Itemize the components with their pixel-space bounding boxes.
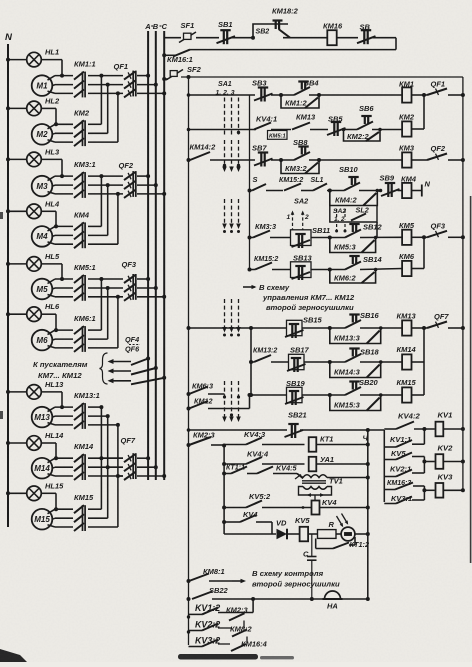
row SB15/KM13 wire [187, 326, 191, 330]
text to control circuit KM7..KM12 [243, 286, 255, 288]
wire SL2 box to row [376, 222, 378, 238]
wire QF2 pole to bus [137, 175, 148, 177]
lamp HL5 [8, 263, 27, 265]
motor М14 [32, 458, 53, 479]
wire QF3 pole to bus [137, 296, 164, 298]
wire KM14 to QF7 row [423, 328, 425, 362]
wire HL3 to motor feed [41, 158, 62, 160]
wire group vertical [107, 85, 109, 134]
wire rail1 return [395, 38, 397, 50]
transformer TV1 [297, 474, 303, 478]
wire rail1 [196, 37, 219, 39]
wire QF1 pole to bus [137, 84, 156, 86]
selector SA1 dashed line [238, 98, 240, 138]
indicator lamp with KT1:2 [341, 527, 355, 541]
lamp HL4 [8, 210, 27, 212]
wire rail2 [181, 76, 463, 78]
wire HL6 to motor feed [41, 313, 56, 315]
brace for QF4..QF6 arrows [100, 353, 108, 384]
wire QF7 pole to bus [137, 457, 148, 459]
selector SA1 dashed line [231, 98, 233, 138]
motor М6 [32, 330, 53, 351]
wire group vertical [117, 297, 119, 348]
wire QF3 pole to bus [137, 287, 156, 289]
lamp HL6 [8, 313, 27, 315]
row KV4 contact wire [222, 520, 226, 524]
motor М13 [32, 407, 53, 428]
contact KM6:2 holding branch [330, 270, 376, 284]
wire with arrow to starter [110, 361, 132, 363]
wire bus A [147, 31, 149, 480]
selector SA1 dashed line segment 2 [231, 199, 233, 226]
row SB19/KM15 wire [249, 393, 253, 397]
wire HL13 to motor feed [41, 391, 62, 393]
row KV4:4/YA1 wire [222, 462, 226, 466]
lamp HL2 [8, 107, 27, 109]
wire group vertical [107, 288, 109, 339]
row S/SL1/KM4 wire [248, 189, 252, 193]
wire QF1 pole to bus [137, 92, 164, 94]
wire HL4 to motor feed [41, 210, 56, 212]
selector SA1 dashed line segment 2 [238, 199, 240, 226]
wire TV1 primary output [327, 477, 368, 479]
selector SA1 dashed line [224, 98, 226, 138]
contact KM4:2 holding branch [330, 191, 378, 206]
selector SA1 dashed line segment 4 [238, 381, 240, 419]
wire group vertical [107, 416, 109, 518]
lamp HL14 [8, 442, 27, 444]
wire group vertical [100, 176, 102, 226]
wire inner rail [249, 95, 251, 270]
wire KM2 to QF1 row [423, 95, 425, 129]
wire HL1 to motor feed [41, 59, 62, 61]
wire with arrow to starter [110, 380, 132, 382]
row KM13:2/KM14 wire [249, 360, 253, 364]
scan artifact bottom-left [0, 649, 27, 662]
motor М3 [32, 176, 53, 197]
wire group vertical [107, 185, 109, 235]
motor М15 [32, 509, 53, 530]
selector SA1 dashed line segment 2 [224, 199, 226, 226]
contact KM5:3 holding branch [330, 238, 376, 253]
wire bus C [163, 31, 165, 480]
row KM3:3/KM5 wire [248, 236, 252, 240]
row VD/KV5 wire [224, 533, 276, 535]
wire QF2 pole to bus [137, 184, 156, 186]
motor М4 [32, 226, 53, 247]
wire KM12 to row [232, 408, 250, 410]
row KT1:1 wire [222, 472, 226, 476]
wire group vertical [100, 279, 102, 330]
wire HL14 to motor feed [41, 442, 56, 444]
wire QF3 pole to bus [137, 278, 148, 280]
row KM15:2/KM6 wire [248, 268, 252, 272]
motor М5 [32, 279, 53, 300]
scan artifact right page edge [470, 196, 472, 563]
wire TV1 secondary loop [299, 487, 332, 496]
wire KM6 to QF3 row [423, 237, 425, 268]
scan artifact left edge marks [0, 212, 3, 219]
motor М2 [32, 124, 53, 145]
row SB3/KM1 wire [189, 94, 256, 96]
row KV4:3/KT1 wire [222, 444, 226, 448]
wire right rail [462, 77, 464, 490]
row KV5:2/KV4 wire [222, 506, 226, 510]
wire group vertical [117, 93, 119, 142]
wire group vertical [117, 425, 119, 527]
wire inner rail rows G-I [250, 328, 252, 395]
bell HA [325, 591, 341, 599]
selector SA1 dashed line segment 3 [231, 299, 233, 330]
wire group vertical [100, 407, 102, 509]
row KV4:1/KM2 wire [189, 129, 257, 131]
wire QF2 pole to bus [137, 193, 164, 195]
wire block left rail [223, 445, 225, 534]
scan artifact bottom-centre [178, 654, 258, 660]
row SB21 wire [189, 429, 288, 431]
node N terminal [421, 185, 423, 197]
contact KM13:3 holding branch [330, 328, 381, 344]
contact KM15:3 holding branch [330, 395, 381, 411]
wire vertical Ч rail [367, 430, 369, 599]
wire N rail [7, 44, 9, 527]
selector SA1 dashed line segment 4 [224, 381, 226, 419]
wire HL2 to motor feed [41, 107, 56, 109]
wire QF7 pole to bus [137, 475, 164, 477]
wire KM15 to QF7 row [423, 362, 425, 395]
selector SA2 (right) box [330, 206, 377, 223]
wire group vertical [117, 194, 119, 244]
wire bell row [212, 598, 368, 600]
wire KV1:2 branch vertical [252, 599, 254, 613]
wire with arrow to starter [110, 370, 132, 372]
lamp HL13 [8, 391, 27, 393]
lamp HL3 [8, 158, 27, 160]
motor М1 [32, 75, 53, 96]
contact KM2:2 holding branch [344, 130, 381, 142]
selector SA1 dashed line segment 4 [231, 381, 233, 419]
lamp HL1 [8, 59, 27, 61]
wire QF7 pole to bus [137, 466, 156, 468]
lamp HL15 [8, 492, 27, 494]
wire HL5 to motor feed [41, 263, 62, 265]
contact KM14:3 holding branch [330, 362, 381, 378]
contact KM3:2 holding branch [281, 160, 319, 174]
wire QF1 pole to bus [137, 75, 148, 77]
selector SA1 dashed line segment 3 [224, 299, 226, 330]
wire bus B [155, 31, 157, 480]
wire right block rail down [383, 430, 385, 502]
wire HL15 to motor feed [41, 492, 56, 494]
contact KM5:1 box [268, 131, 288, 140]
wire group vertical [100, 76, 102, 125]
wire ladder left rail [188, 77, 190, 645]
selector SA1 dashed line segment 3 [238, 299, 240, 330]
paper grain overlay [0, 0, 1, 1]
contact KM1:2 holding branch [281, 95, 319, 108]
